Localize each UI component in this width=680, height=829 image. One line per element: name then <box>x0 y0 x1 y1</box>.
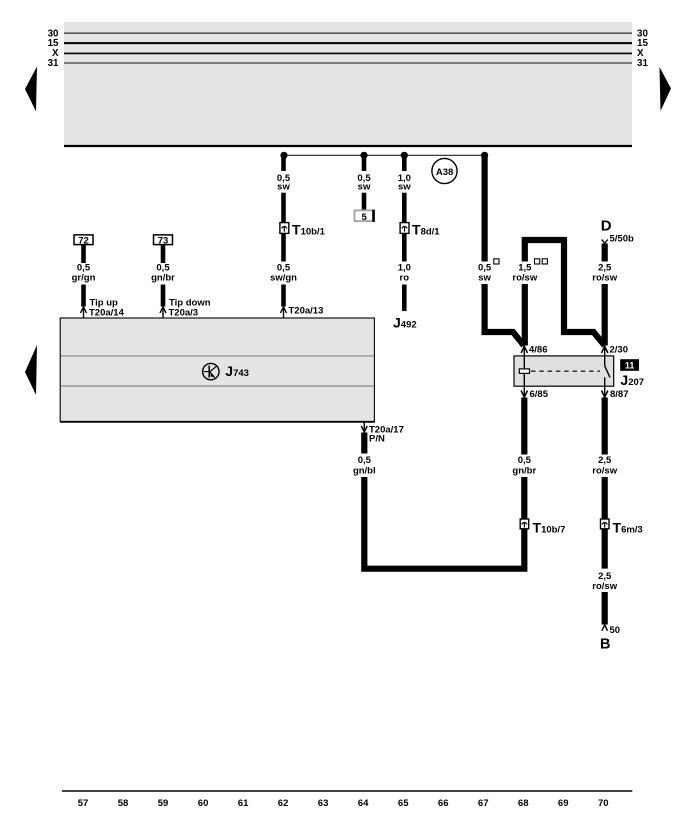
svg-text:5: 5 <box>362 212 368 223</box>
svg-text:62: 62 <box>278 798 289 809</box>
svg-text:50: 50 <box>610 625 621 636</box>
svg-text:A38: A38 <box>436 167 453 178</box>
svg-text:T20a/3: T20a/3 <box>169 307 199 318</box>
svg-text:ro/sw: ro/sw <box>592 465 617 476</box>
svg-text:70: 70 <box>598 798 609 809</box>
svg-text:gn/bl: gn/bl <box>353 465 376 476</box>
svg-text:8/87: 8/87 <box>610 389 629 400</box>
svg-text:gn/br: gn/br <box>151 273 175 284</box>
svg-text:sw/gn: sw/gn <box>270 273 297 284</box>
svg-text:sw: sw <box>358 182 371 193</box>
svg-text:31: 31 <box>637 58 648 69</box>
svg-text:59: 59 <box>158 798 169 809</box>
svg-text:63: 63 <box>318 798 329 809</box>
svg-text:67: 67 <box>478 798 489 809</box>
svg-text:5/50b: 5/50b <box>610 234 634 245</box>
svg-text:61: 61 <box>238 798 249 809</box>
svg-text:11: 11 <box>625 361 635 371</box>
svg-text:58: 58 <box>118 798 129 809</box>
svg-text:4/86: 4/86 <box>529 345 548 356</box>
svg-text:B: B <box>600 637 610 653</box>
svg-text:sw: sw <box>398 182 411 193</box>
svg-text:68: 68 <box>518 798 529 809</box>
svg-text:2/30: 2/30 <box>610 345 629 356</box>
svg-text:69: 69 <box>558 798 569 809</box>
svg-text:66: 66 <box>438 798 449 809</box>
svg-text:6/85: 6/85 <box>530 389 549 400</box>
svg-text:T20a/14: T20a/14 <box>89 307 125 318</box>
svg-text:gr/gn: gr/gn <box>72 273 96 284</box>
svg-text:T20a/13: T20a/13 <box>289 306 324 317</box>
svg-text:D: D <box>601 217 612 234</box>
svg-text:ro/sw: ro/sw <box>592 273 617 284</box>
svg-text:sw: sw <box>277 182 290 193</box>
svg-text:sw: sw <box>478 273 491 284</box>
svg-text:64: 64 <box>358 798 369 809</box>
svg-text:P/N: P/N <box>369 434 385 445</box>
svg-text:31: 31 <box>48 58 59 69</box>
svg-text:ro/sw: ro/sw <box>592 581 617 592</box>
svg-text:ro: ro <box>400 273 410 284</box>
svg-text:57: 57 <box>78 798 89 809</box>
svg-text:ro/sw: ro/sw <box>512 273 537 284</box>
svg-text:60: 60 <box>198 798 209 809</box>
svg-text:gn/br: gn/br <box>512 465 536 476</box>
svg-text:65: 65 <box>398 798 409 809</box>
